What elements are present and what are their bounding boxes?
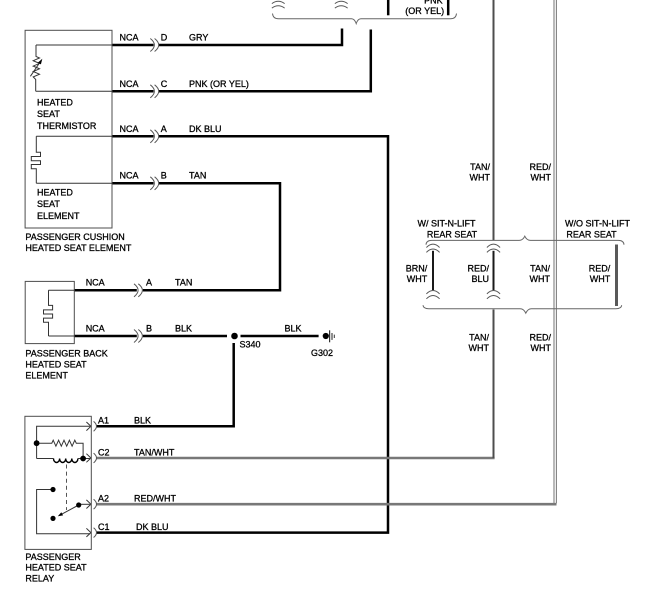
svg-text:PASSENGER: PASSENGER bbox=[25, 552, 81, 562]
svg-text:W/O SIT-N-LIFT: W/O SIT-N-LIFT bbox=[565, 219, 630, 229]
svg-text:WHT: WHT bbox=[531, 173, 552, 183]
svg-text:PNK (OR YEL): PNK (OR YEL) bbox=[189, 79, 249, 89]
svg-text:C1: C1 bbox=[98, 522, 110, 532]
svg-text:RELAY: RELAY bbox=[25, 574, 54, 584]
svg-text:GRY: GRY bbox=[189, 33, 208, 43]
svg-text:TAN/WHT: TAN/WHT bbox=[134, 447, 175, 457]
svg-text:G302: G302 bbox=[311, 348, 333, 358]
svg-text:NCA: NCA bbox=[86, 323, 105, 333]
svg-text:D: D bbox=[161, 33, 168, 43]
svg-text:TAN/: TAN/ bbox=[469, 332, 489, 342]
svg-text:A: A bbox=[146, 278, 152, 288]
svg-text:TAN: TAN bbox=[175, 278, 192, 288]
svg-text:HEATED: HEATED bbox=[37, 187, 73, 197]
svg-text:HEATED SEAT: HEATED SEAT bbox=[25, 360, 87, 370]
svg-text:BLK: BLK bbox=[285, 324, 302, 334]
svg-text:PASSENGER BACK: PASSENGER BACK bbox=[25, 349, 107, 359]
svg-text:RED/WHT: RED/WHT bbox=[134, 494, 176, 504]
svg-text:BLU: BLU bbox=[471, 274, 489, 284]
svg-text:WHT: WHT bbox=[530, 274, 551, 284]
svg-text:B: B bbox=[146, 323, 152, 333]
svg-text:A: A bbox=[161, 124, 167, 134]
svg-text:DK BLU: DK BLU bbox=[136, 522, 169, 532]
svg-text:WHT: WHT bbox=[469, 343, 490, 353]
svg-text:HEATED SEAT ELEMENT: HEATED SEAT ELEMENT bbox=[25, 243, 132, 253]
svg-text:S340: S340 bbox=[240, 340, 261, 350]
svg-text:SEAT: SEAT bbox=[37, 199, 60, 209]
svg-text:TAN/: TAN/ bbox=[470, 162, 490, 172]
svg-text:WHT: WHT bbox=[407, 274, 428, 284]
svg-text:C2: C2 bbox=[98, 447, 110, 457]
svg-text:TAN/: TAN/ bbox=[530, 263, 550, 273]
svg-text:HEATED: HEATED bbox=[37, 97, 73, 107]
svg-text:ELEMENT: ELEMENT bbox=[25, 371, 68, 381]
svg-text:THERMISTOR: THERMISTOR bbox=[37, 121, 97, 131]
svg-text:A2: A2 bbox=[98, 494, 109, 504]
svg-text:RED/: RED/ bbox=[467, 263, 489, 273]
svg-text:RED/: RED/ bbox=[589, 263, 611, 273]
svg-text:DK BLU: DK BLU bbox=[189, 124, 222, 134]
svg-text:NCA: NCA bbox=[120, 33, 139, 43]
svg-text:TAN: TAN bbox=[189, 171, 206, 181]
svg-text:PASSENGER CUSHION: PASSENGER CUSHION bbox=[25, 232, 124, 242]
svg-text:WHT: WHT bbox=[531, 343, 552, 353]
svg-text:NCA: NCA bbox=[120, 79, 139, 89]
svg-text:BLK: BLK bbox=[134, 416, 151, 426]
svg-text:RED/: RED/ bbox=[529, 332, 551, 342]
svg-text:REAR SEAT: REAR SEAT bbox=[566, 230, 617, 240]
svg-text:WHT: WHT bbox=[470, 173, 491, 183]
svg-text:RED/: RED/ bbox=[529, 162, 551, 172]
svg-text:REAR SEAT: REAR SEAT bbox=[427, 230, 478, 240]
svg-text:NCA: NCA bbox=[120, 124, 139, 134]
svg-text:BLK: BLK bbox=[175, 323, 192, 333]
svg-text:NCA: NCA bbox=[120, 171, 139, 181]
svg-text:BRN/: BRN/ bbox=[406, 263, 428, 273]
svg-text:B: B bbox=[161, 171, 167, 181]
svg-text:SEAT: SEAT bbox=[37, 109, 60, 119]
svg-text:ELEMENT: ELEMENT bbox=[37, 211, 80, 221]
svg-text:(OR YEL): (OR YEL) bbox=[405, 6, 444, 16]
svg-text:PNK: PNK bbox=[424, 0, 443, 5]
svg-text:NCA: NCA bbox=[86, 278, 105, 288]
svg-text:WHT: WHT bbox=[590, 274, 611, 284]
svg-text:W/ SIT-N-LIFT: W/ SIT-N-LIFT bbox=[418, 219, 476, 229]
svg-text:C: C bbox=[161, 79, 168, 89]
svg-text:HEATED SEAT: HEATED SEAT bbox=[25, 563, 87, 573]
svg-text:A1: A1 bbox=[98, 416, 109, 426]
